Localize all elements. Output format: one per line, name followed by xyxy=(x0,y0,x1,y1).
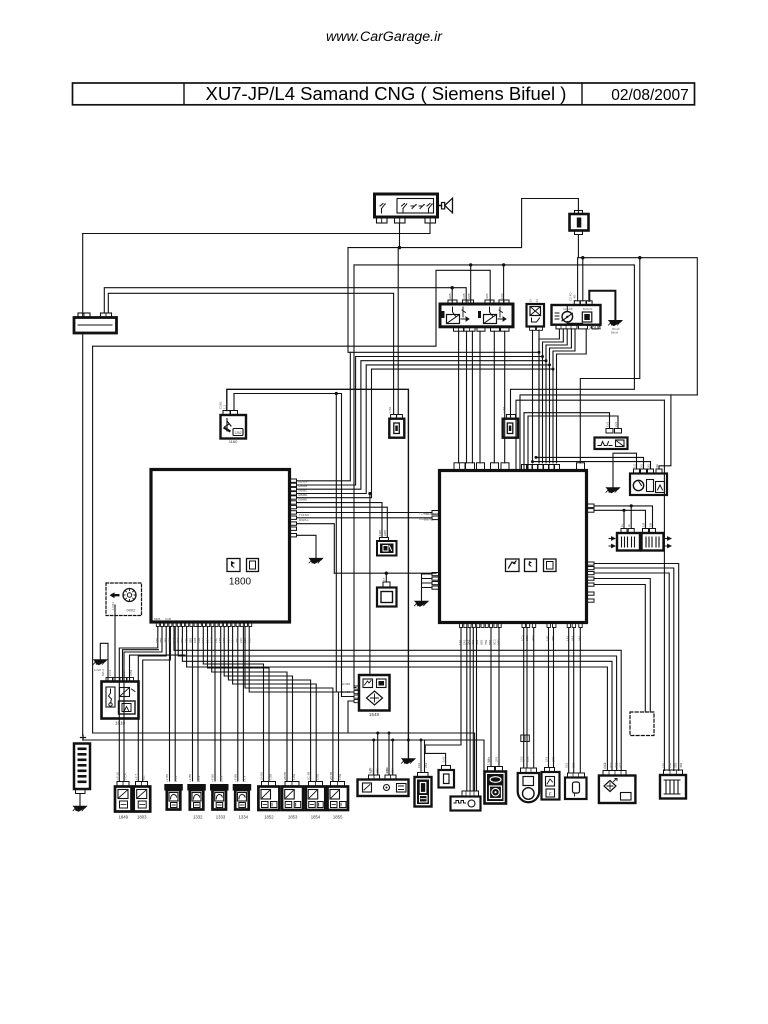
relay bottom wires to ECU2 top xyxy=(458,331,460,463)
title table xyxy=(73,83,695,105)
ECU1 right side pins xyxy=(290,479,297,537)
svg-text:1M: 1M xyxy=(642,522,646,527)
svg-text:1853: 1853 xyxy=(288,815,298,820)
branch from fuse bus to ECU2 xyxy=(638,256,641,259)
svg-text:1H2: 1H2 xyxy=(442,756,446,762)
svg-text:F: F xyxy=(549,792,552,797)
svg-text:GN B6: GN B6 xyxy=(341,682,350,686)
svg-text:1.2: 1.2 xyxy=(223,404,227,409)
svg-text:1810: 1810 xyxy=(115,721,126,726)
svg-text:GB/BA: GB/BA xyxy=(298,480,307,484)
loop y270 to relay xyxy=(93,270,491,733)
wire ignition to bus xyxy=(399,223,401,248)
gas injector connectors 1852-1855 xyxy=(258,772,279,820)
svg-text:2X: 2X xyxy=(535,299,539,303)
pin labels under ECU1 xyxy=(155,637,251,643)
ECU2 bottom wires xyxy=(466,628,468,792)
svg-text:1332: 1332 xyxy=(193,815,203,820)
svg-text:23B: 23B xyxy=(247,638,251,643)
svg-text:1G: 1G xyxy=(633,463,637,468)
OOD4 bottom wires with jogs to ECU2 cluster and bundle xyxy=(539,329,559,463)
gauge unit right xyxy=(630,469,667,495)
ignition coil 1 xyxy=(609,529,640,551)
OOD4 gas control unit xyxy=(552,301,602,332)
svg-text:1.B2: 1.B2 xyxy=(338,773,342,780)
svg-text:2D B5: 2D B5 xyxy=(329,771,333,780)
double relay unit xyxy=(440,300,513,331)
MAP sensor dark xyxy=(377,538,397,556)
OOD4 feed from fuse bus xyxy=(577,258,579,301)
svg-text:2 B3: 2 B3 xyxy=(385,767,389,774)
svg-text:BUS IN: BUS IN xyxy=(583,307,592,311)
oil pressure switch connector xyxy=(388,406,404,437)
ECU2 gas ECU xyxy=(440,471,587,623)
injector wires straight xyxy=(169,627,171,782)
svg-text:1B3: 1B3 xyxy=(662,762,666,768)
svg-text:2 CA: 2 CA xyxy=(124,773,128,780)
coolant sensor double square xyxy=(334,572,436,574)
svg-text:1R5: 1R5 xyxy=(462,293,466,299)
ground bus bottom xyxy=(401,759,415,764)
svg-text:GB/BE: GB/BE xyxy=(298,498,307,502)
ECU1 fan wires long to right xyxy=(174,627,621,771)
svg-text:2L: 2L xyxy=(627,523,631,527)
ECU1 fan nested to 1852-1855 xyxy=(203,627,263,782)
svg-text:1854: 1854 xyxy=(311,815,321,820)
svg-text:3 C2: 3 C2 xyxy=(615,762,619,769)
0002 diagnostic dashed xyxy=(106,583,142,616)
svg-text:1.B2: 1.B2 xyxy=(316,773,320,780)
svg-text:1548: 1548 xyxy=(369,712,380,717)
svg-text:XU7-JP/L4 Samand CNG ( Siemens: XU7-JP/L4 Samand CNG ( Siemens Bifuel ) xyxy=(206,83,567,104)
svg-text:1800: 1800 xyxy=(229,577,252,588)
speed sensor xyxy=(565,773,587,799)
small relay with X symbol xyxy=(527,304,545,330)
svg-text:1 B4: 1 B4 xyxy=(122,669,126,676)
dashed future connector box xyxy=(630,712,654,736)
svg-text:+F 7: +F 7 xyxy=(134,774,138,780)
lambda flat connector xyxy=(451,791,481,811)
ECU1 fan wires to 1849/1803 xyxy=(119,627,158,782)
bottom power buses xyxy=(93,733,475,791)
svg-text:+F B5: +F B5 xyxy=(233,774,237,782)
connector 1803 xyxy=(134,774,151,820)
ECU2 right pins upper (coil feed) xyxy=(587,504,595,508)
svg-text:www.CarGarage.ir: www.CarGarage.ir xyxy=(326,29,443,45)
connector 1849 xyxy=(115,772,132,820)
tachometric sensor xyxy=(542,768,560,800)
right loop wires from fuse xyxy=(520,395,697,471)
svg-text:1 B4: 1 B4 xyxy=(502,406,506,413)
relay internals left xyxy=(453,307,456,316)
signal bundle to left ECU pins xyxy=(297,352,540,481)
svg-text:TCFSU: TCFSU xyxy=(299,513,309,517)
svg-text:2B B5: 2B B5 xyxy=(283,771,287,780)
svg-text:3R5: 3R5 xyxy=(448,293,452,299)
gas pressure regulator connector xyxy=(599,762,636,803)
oxygen sensor xyxy=(518,768,540,802)
ECU1 pin wires to sensors xyxy=(297,503,383,538)
svg-text:1 C01: 1 C01 xyxy=(111,602,115,610)
wire fuse down and right xyxy=(578,235,697,395)
svg-text:DGPLL: DGPLL xyxy=(424,517,434,521)
fuse top right xyxy=(570,211,589,235)
svg-text:1.C4: 1.C4 xyxy=(242,775,246,782)
bottom pads xyxy=(454,327,464,331)
svg-text:1T: 1T xyxy=(382,577,386,581)
horn symbol xyxy=(438,198,453,213)
ignition coil 2 xyxy=(642,529,672,551)
svg-text:+F B5: +F B5 xyxy=(188,774,192,782)
bus y247 xyxy=(348,199,578,248)
svg-text:1R6: 1R6 xyxy=(500,293,504,299)
svg-text:1852: 1852 xyxy=(264,815,274,820)
ground feed for 1810 xyxy=(100,643,108,681)
svg-text:2M: 2M xyxy=(649,522,653,527)
svg-text:2C2: 2C2 xyxy=(609,762,613,768)
battery terminal wires to relays xyxy=(104,288,466,313)
svg-text:+F B5: +F B5 xyxy=(211,774,215,782)
svg-text:1F2: 1F2 xyxy=(545,756,549,762)
svg-text:1803: 1803 xyxy=(137,815,147,820)
pin labels right of ECU1 right pins xyxy=(298,480,309,523)
pin labels above ECU1 bottom pins row top side xyxy=(154,617,171,621)
thick wire OOD4 to ground xyxy=(589,291,615,321)
svg-text:3B2: 3B2 xyxy=(674,762,678,768)
bus y264.9 xyxy=(354,265,634,418)
svg-text:+F 30: +F 30 xyxy=(116,772,120,780)
CNG solenoid coil connector xyxy=(660,770,686,799)
svg-text:1334: 1334 xyxy=(239,815,249,820)
CNG changeover switch 1548 xyxy=(341,675,390,717)
svg-text:1333: 1333 xyxy=(216,815,226,820)
svg-text:2C B5: 2C B5 xyxy=(307,771,311,780)
ignition switch unit 1800-area top xyxy=(375,194,438,217)
svg-text:1 4D: 1 4D xyxy=(573,294,577,301)
svg-text:C2 H08: C2 H08 xyxy=(563,307,573,311)
1548 top feed xyxy=(369,494,371,676)
svg-text:GB/BB: GB/BB xyxy=(298,484,307,488)
svg-text:3 B4: 3 B4 xyxy=(129,669,133,676)
svg-text:1 B2: 1 B2 xyxy=(487,758,491,765)
fuel pump unit dark xyxy=(485,758,507,803)
battery xyxy=(74,313,117,333)
svg-text:MA 3: MA 3 xyxy=(101,669,105,676)
wire 264.9 left corner down to 1548 pin1 xyxy=(354,265,356,688)
svg-text:MFB: MFB xyxy=(154,617,160,621)
coolant temp connector right xyxy=(502,406,518,437)
svg-text:2V2: 2V2 xyxy=(614,421,618,427)
relay internals right xyxy=(490,307,493,316)
bus taps xyxy=(373,740,375,775)
svg-text:02/08/2007: 02/08/2007 xyxy=(611,87,689,104)
ECU2 top pads xyxy=(454,463,585,471)
svg-text:1.C4: 1.C4 xyxy=(220,775,224,782)
small connector with bar xyxy=(439,766,455,788)
svg-text:1X: 1X xyxy=(529,299,533,303)
svg-text:0002: 0002 xyxy=(127,608,137,613)
1160 wires xyxy=(227,389,409,758)
svg-text:C1B: C1B xyxy=(165,617,171,621)
tiny labels near valve, gauge, coils xyxy=(370,293,660,773)
ignition connector pads xyxy=(377,218,388,224)
svg-text:+F B5: +F B5 xyxy=(165,774,169,782)
svg-text:2B3: 2B3 xyxy=(668,762,672,768)
svg-text:DGPLL: DGPLL xyxy=(299,518,309,522)
svg-text:Bifuel: Bifuel xyxy=(611,331,618,335)
tiny labels above bottom right connectors xyxy=(417,756,683,768)
svg-text:2R5: 2R5 xyxy=(467,293,471,299)
svg-text:1855: 1855 xyxy=(333,815,343,820)
1810 wires from ECU1 xyxy=(123,650,159,682)
svg-text:GB/BD: GB/BD xyxy=(298,493,308,497)
svg-text:2G: 2G xyxy=(640,463,644,468)
svg-text:1D2: 1D2 xyxy=(520,756,524,762)
svg-text:1K2: 1K2 xyxy=(417,762,421,768)
tall sensor connector dark xyxy=(415,773,432,807)
svg-text:1 B2: 1 B2 xyxy=(388,406,392,413)
svg-text:1L: 1L xyxy=(620,523,624,527)
wire ignition right pad to battery xyxy=(83,223,430,234)
svg-text:1.B2: 1.B2 xyxy=(269,773,273,780)
ECU1 bottom pin row xyxy=(156,622,251,627)
svg-text:2MP: 2MP xyxy=(383,530,387,536)
svg-text:2P2: 2P2 xyxy=(495,756,499,762)
svg-text:1849: 1849 xyxy=(119,815,129,820)
gauge wires xyxy=(659,395,671,469)
pin labels under ECU2 xyxy=(458,635,581,645)
wire bus left corner down to bundle xyxy=(348,248,350,353)
svg-text:GB/BC: GB/BC xyxy=(298,489,308,493)
svg-text:1V2: 1V2 xyxy=(606,421,610,427)
svg-text:1.B2: 1.B2 xyxy=(292,773,296,780)
svg-text:1262: 1262 xyxy=(234,431,241,435)
svg-text:1E2: 1E2 xyxy=(565,762,569,768)
ECU2 left pins inter-ecu xyxy=(432,511,440,515)
wire battery main vertical xyxy=(82,234,84,318)
svg-text:4C1: 4C1 xyxy=(619,762,623,768)
svg-text:4G: 4G xyxy=(655,463,659,468)
1160 injector feed resistor xyxy=(219,401,247,444)
svg-text:2 B1: 2 B1 xyxy=(368,767,372,774)
ECU2 bottom pins cluster1 xyxy=(460,623,583,628)
svg-text:2A B5: 2A B5 xyxy=(260,772,264,780)
wide twin connector bottom xyxy=(358,767,409,796)
svg-text:1160: 1160 xyxy=(229,439,238,444)
valve unit canister xyxy=(595,429,628,450)
ECU2 left lower pins to ground ladder xyxy=(432,573,440,590)
double fuel relay 1810 xyxy=(101,669,139,726)
svg-text:2 C1: 2 C1 xyxy=(108,669,112,676)
svg-text:3R6: 3R6 xyxy=(485,293,489,299)
ECU 1800 (petrol) xyxy=(151,470,290,623)
injector connectors 1332-1334 group xyxy=(164,774,183,810)
svg-text:3G: 3G xyxy=(647,463,651,468)
svg-text:1MP: 1MP xyxy=(378,530,382,536)
OOD4 bottom pads xyxy=(556,325,577,329)
svg-text:1.C4: 1.C4 xyxy=(197,775,201,782)
svg-text:1.C4: 1.C4 xyxy=(174,775,178,782)
battery positive distribution strip xyxy=(73,735,90,811)
ECU2 right lower pins fan xyxy=(587,562,595,602)
svg-text:TCFSU: TCFSU xyxy=(424,512,434,516)
svg-text:4B2: 4B2 xyxy=(679,762,683,768)
svg-text:1 C2: 1 C2 xyxy=(603,762,607,769)
